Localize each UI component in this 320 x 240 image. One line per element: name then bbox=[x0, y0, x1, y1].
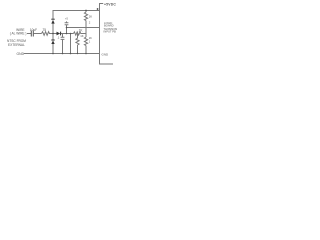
svg-text:GND: GND bbox=[102, 52, 110, 56]
svg-text:1K: 1K bbox=[80, 34, 84, 38]
svg-text:.1: .1 bbox=[57, 36, 60, 40]
svg-text:INPUT PB: INPUT PB bbox=[104, 30, 117, 34]
svg-text:10uF: 10uF bbox=[30, 28, 37, 32]
svg-text:75: 75 bbox=[43, 28, 47, 32]
svg-text:1K: 1K bbox=[79, 28, 84, 32]
svg-text:GND: GND bbox=[17, 52, 25, 56]
svg-text:( AL WIRE ): ( AL WIRE ) bbox=[10, 32, 27, 36]
svg-text:+5VDC: +5VDC bbox=[104, 2, 116, 6]
svg-text:+5: +5 bbox=[65, 18, 68, 21]
svg-text:EXTERNAL: EXTERNAL bbox=[8, 43, 25, 47]
svg-text:2: 2 bbox=[89, 21, 91, 25]
svg-text:1K: 1K bbox=[89, 36, 92, 40]
svg-text:2K: 2K bbox=[89, 15, 93, 19]
